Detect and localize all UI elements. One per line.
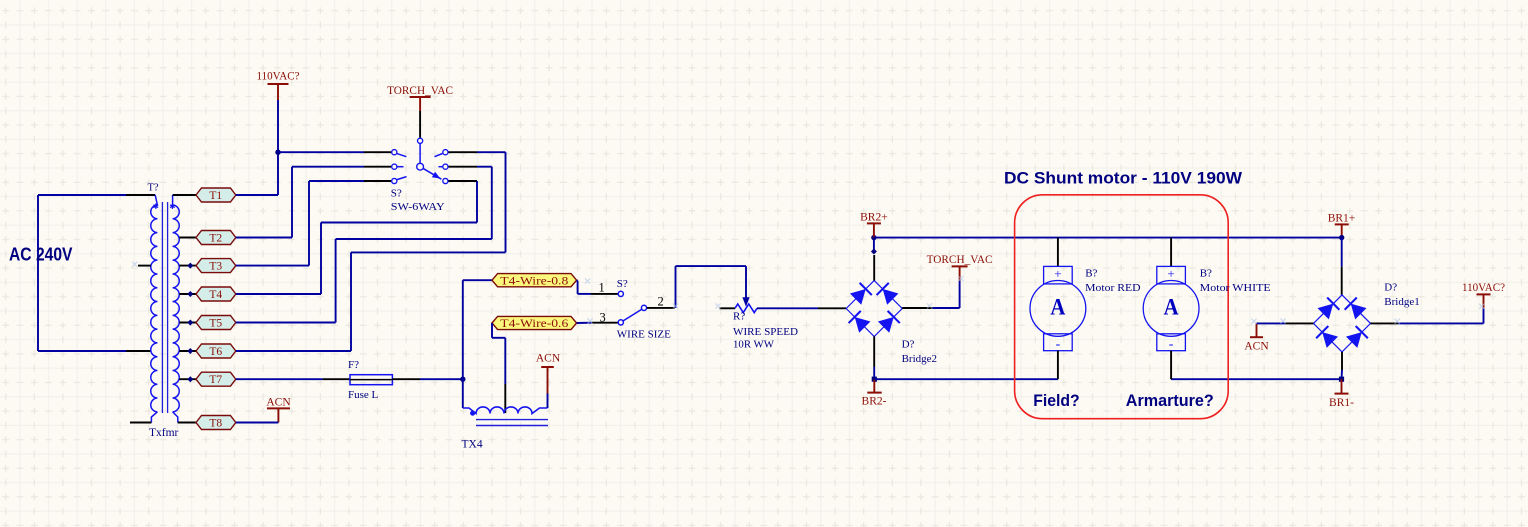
transformer TX4 — [462, 379, 549, 450]
svg-text:2: 2 — [658, 295, 664, 309]
svg-text:T1: T1 — [209, 190, 222, 202]
svg-text:F?: F? — [348, 359, 359, 371]
svg-text:Motor WHITE: Motor WHITE — [1200, 282, 1271, 294]
svg-text:1: 1 — [599, 281, 605, 295]
power port 110VAC? left — [257, 71, 300, 196]
svg-text:Bridge1: Bridge1 — [1384, 296, 1419, 308]
wire T7 to fuse — [236, 378, 350, 380]
wire net T6 to switch — [236, 152, 506, 351]
wire bridge2 bottom pin — [873, 337, 875, 380]
port label T3 — [196, 259, 236, 273]
svg-text:-: - — [1056, 337, 1061, 352]
svg-text:S?: S? — [391, 188, 402, 200]
power port BR1+ — [1328, 213, 1356, 238]
wire riser to T4-Wire-0.8 — [463, 280, 492, 379]
wire 110VAC to bridge1 right — [1371, 308, 1484, 323]
pin number 1 — [599, 281, 605, 295]
power port 110VAC? right — [1462, 282, 1505, 308]
label B? Motor WHITE — [1200, 268, 1271, 294]
svg-text:110VAC?: 110VAC? — [257, 71, 300, 83]
node BR1+ junction — [1339, 235, 1344, 240]
power port ACN at TX4 — [536, 352, 561, 408]
wire net T2 to switch — [236, 167, 364, 238]
port label T6 — [196, 344, 236, 358]
svg-text:T?: T? — [148, 183, 159, 194]
node bridge2 top — [871, 235, 877, 255]
wire T4-Wire-0.6 to switch pin 3 — [577, 322, 618, 324]
motor B? Motor WHITE — [1143, 238, 1199, 380]
title DC Shunt motor - 110V 190W — [1004, 170, 1242, 188]
wire bridge2 top pin — [873, 238, 875, 281]
node bridge2 bottom — [872, 377, 877, 382]
svg-text:BR2+: BR2+ — [860, 212, 888, 224]
svg-text:T2: T2 — [209, 233, 222, 245]
wire bottom bus armature to BR1- — [1171, 378, 1341, 380]
port T4-Wire-0.6 — [492, 316, 577, 330]
svg-text:T3: T3 — [209, 261, 222, 273]
bridge rectifier D? Bridge1 — [1314, 282, 1420, 352]
svg-text:Field?: Field? — [1033, 391, 1080, 410]
svg-text:110VAC?: 110VAC? — [1462, 282, 1505, 294]
wire T1 to 110VAC riser — [236, 194, 278, 196]
svg-text:BR2-: BR2- — [862, 395, 887, 407]
power port BR2- — [862, 379, 887, 407]
svg-text:Bridge2: Bridge2 — [902, 353, 937, 365]
svg-text:T7: T7 — [209, 374, 222, 386]
svg-text:B?: B? — [1200, 268, 1212, 280]
switch S? WIRE SIZE — [617, 278, 675, 340]
wire top bus BR2+ to BR1+ — [874, 237, 1342, 239]
svg-text:BR1-: BR1- — [1329, 397, 1354, 409]
node junction at TX4 — [460, 377, 465, 382]
label B? Motor RED — [1085, 268, 1140, 294]
port label T8 — [196, 416, 236, 430]
wire pot to bridge2 — [757, 307, 846, 309]
svg-text:T5: T5 — [209, 318, 222, 330]
wire wiper loop — [676, 266, 747, 308]
svg-text:B?: B? — [1085, 268, 1097, 280]
label Armarture? — [1126, 391, 1214, 410]
svg-text:TX4: TX4 — [462, 438, 483, 450]
svg-text:3: 3 — [600, 311, 606, 325]
svg-text:Fuse L: Fuse L — [348, 389, 379, 401]
label AC 240V — [9, 245, 73, 265]
no-ERC markers — [132, 262, 1484, 324]
svg-text:WIRE SIZE: WIRE SIZE — [617, 328, 671, 340]
bridge rectifier D? Bridge2 — [846, 281, 937, 365]
label Field? — [1033, 391, 1080, 410]
port label T7 — [196, 372, 236, 386]
wire T4-Wire-0.8 to switch pin 1 — [577, 280, 618, 294]
svg-text:S?: S? — [617, 278, 628, 290]
transformer T? Txfmr — [130, 183, 196, 439]
svg-text:BR1+: BR1+ — [1328, 213, 1356, 225]
wire to switch S? pin top-left — [278, 151, 391, 153]
svg-text:SW-6WAY: SW-6WAY — [391, 201, 445, 213]
svg-text:ACN: ACN — [266, 396, 291, 408]
wire TORCH_VAC to bridge2 right — [902, 281, 959, 308]
svg-text:Motor RED: Motor RED — [1085, 282, 1140, 294]
svg-text:D?: D? — [1384, 282, 1397, 294]
wire T8 to ACN — [236, 422, 279, 424]
wiper arrow — [742, 297, 749, 307]
port T4-Wire-0.8 — [492, 274, 577, 288]
wire net T4 to switch — [236, 181, 477, 294]
svg-text:ACN: ACN — [536, 352, 561, 364]
svg-text:DC Shunt motor - 110V 190W: DC Shunt motor - 110V 190W — [1004, 170, 1242, 188]
svg-text:+: + — [1167, 266, 1174, 281]
power port TORCH_VAC top — [387, 85, 453, 111]
svg-text:ACN: ACN — [1244, 340, 1269, 352]
svg-text:A: A — [1164, 295, 1179, 321]
power port TORCH_VAC bridge2 — [927, 254, 993, 281]
svg-text:TORCH_VAC: TORCH_VAC — [927, 254, 993, 266]
svg-text:A: A — [1050, 295, 1065, 321]
svg-text:+: + — [1054, 266, 1061, 281]
svg-text:T6: T6 — [209, 346, 222, 358]
wire bottom bus BR2- to field — [874, 378, 1058, 380]
svg-text:T8: T8 — [209, 418, 222, 430]
box DC shunt motor outline — [1015, 195, 1229, 419]
wire net T3 to switch — [236, 181, 364, 266]
port label T1 — [196, 188, 236, 202]
wire fuse to TX4 junction — [392, 378, 462, 380]
svg-text:Armarture?: Armarture? — [1126, 391, 1214, 410]
port label T4 — [196, 287, 236, 301]
power port BR1- — [1329, 379, 1354, 409]
power port ACN bridge1 — [1244, 323, 1269, 352]
fuse F? Fuse L — [348, 359, 392, 401]
svg-text:T4-Wire-0.8: T4-Wire-0.8 — [500, 275, 568, 287]
wire ACN to bridge1 left — [1257, 322, 1314, 324]
port label T2 — [196, 231, 236, 245]
svg-text:T4: T4 — [209, 289, 222, 301]
power port BR2+ — [860, 212, 888, 238]
pin number 3 — [600, 311, 606, 325]
wire net T5 to switch — [236, 167, 492, 323]
resistor R? WIRE SPEED 10R WW — [720, 304, 799, 351]
svg-text:AC 240V: AC 240V — [9, 245, 73, 265]
wire T4-Wire-0.6 to TX4 mid tap — [492, 323, 505, 413]
svg-text:T4-Wire-0.6: T4-Wire-0.6 — [500, 318, 568, 330]
svg-text:WIRE SPEED: WIRE SPEED — [733, 326, 798, 338]
svg-text:10R WW: 10R WW — [733, 339, 775, 351]
motor B? Motor RED — [1030, 238, 1086, 380]
svg-text:Txfmr: Txfmr — [149, 427, 179, 439]
svg-text:-: - — [1169, 337, 1174, 352]
switch S? SW-6WAY — [364, 111, 477, 213]
port label T5 — [196, 316, 236, 330]
wire bridge1 top pin — [1341, 238, 1343, 295]
power port ACN near T8 — [266, 396, 291, 422]
svg-text:R?: R? — [733, 310, 745, 322]
svg-text:D?: D? — [902, 338, 915, 350]
svg-text:TORCH_VAC: TORCH_VAC — [387, 85, 453, 97]
wire AC 240V loop — [38, 195, 155, 351]
wire bridge1 bottom pin — [1341, 352, 1344, 379]
node bridge1 bottom — [1339, 377, 1344, 382]
node junction 110VAC/T1 — [275, 150, 280, 155]
